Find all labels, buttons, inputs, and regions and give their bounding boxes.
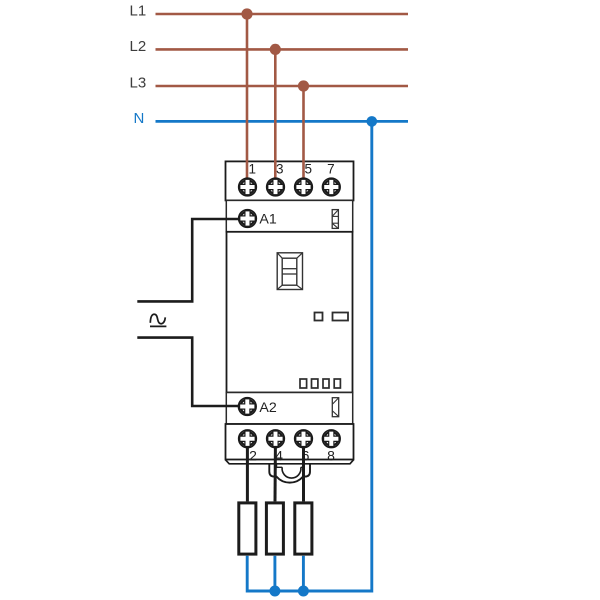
A1 section marker icon [332,210,338,229]
svg-text:7: 7 [327,161,335,176]
terminal screw A2 [239,398,257,416]
svg-text:L3: L3 [130,74,147,91]
wire L1 phase line [156,13,409,16]
wire L1 drop to terminal 1 [246,14,249,179]
wire coil A1 control lead [137,219,248,301]
terminal screw 4 [267,430,285,448]
terminal screw 2 [239,430,257,448]
contactor A2 coil section [226,393,352,425]
DIP switch square 2 [312,379,318,388]
junction node L3 [298,80,309,91]
indicator square small [315,313,323,321]
svg-text:N: N [134,110,145,127]
DIP switch square 1 [300,379,307,388]
position indicator window [277,253,302,290]
wire load2 to neutral bus [273,556,276,591]
junction node L2 [270,44,281,55]
svg-text:2: 2 [249,447,257,463]
DIN rail clip [269,464,310,483]
terminal screw 1 [239,178,257,196]
wire L3 drop to terminal 5 [302,86,305,179]
terminal screw 8 [323,430,341,448]
svg-text:L2: L2 [130,38,147,55]
svg-text:A2: A2 [259,400,276,416]
load resistor 2 [266,503,283,554]
terminal screw A1 [239,210,257,228]
AC/DC supply symbol [150,314,166,326]
wire terminal 2 to load 1 [246,448,249,501]
wire L2 drop to terminal 3 [274,49,277,179]
contactor A1 coil section [226,200,352,231]
wire terminal 4 to load 2 [274,448,277,501]
junction node bus 3 [298,586,309,597]
svg-text:8: 8 [327,447,335,463]
terminal screw 6 [295,430,313,448]
indicator rectangle wide [333,313,349,321]
A2 section marker icon [332,398,338,417]
junction node L1 [241,8,252,19]
terminal screw 3 [267,178,285,196]
load resistor 1 [239,503,256,554]
DIP switch square 3 [323,379,329,388]
wire terminal 6 to load 3 [302,448,305,501]
wire load3 to neutral bus [302,556,305,591]
wire L2 phase line [156,48,409,51]
contactor main body [227,232,353,393]
contactor top terminal block [226,161,354,200]
wire N down right side and bottom neutral bus [247,121,372,591]
wire N neutral line [156,120,409,123]
contactor bottom terminal block [226,424,354,460]
junction node bus 2 [269,586,280,597]
terminal screw 5 [295,178,313,196]
contactor base strip [226,460,354,464]
terminal screw 7 [323,178,341,196]
wire coil A2 control lead [137,338,248,406]
svg-text:3: 3 [276,161,284,176]
DIP switch square 4 [334,379,340,388]
svg-text:L1: L1 [130,3,147,20]
junction node N top [367,116,378,127]
svg-text:5: 5 [304,161,312,176]
load resistor 3 [295,503,312,554]
svg-text:1: 1 [248,161,256,176]
wire L3 phase line [156,85,409,88]
svg-text:A1: A1 [259,211,276,227]
